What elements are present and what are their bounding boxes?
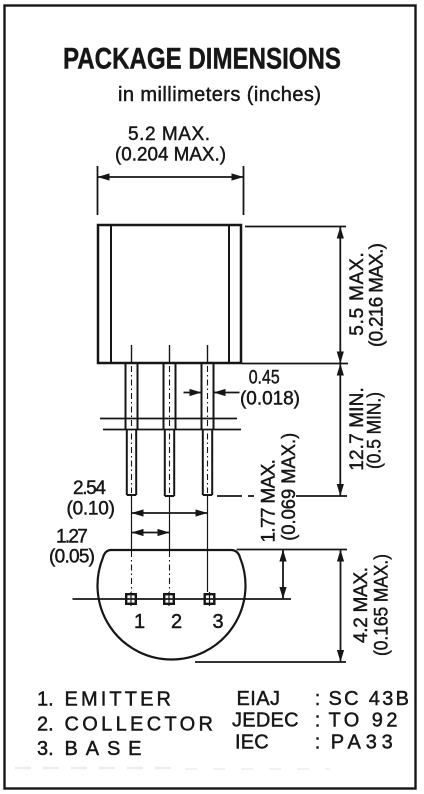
svg-text:EIAJ: EIAJ — [237, 688, 281, 710]
lead 3 narrow section — [203, 430, 212, 495]
svg-text:(0.204 MAX.): (0.204 MAX.) — [115, 145, 226, 166]
dimension line 12.7 MIN vertical — [337, 364, 344, 497]
svg-text:SC 43B: SC 43B — [329, 688, 410, 710]
lead 1 wide section — [126, 364, 138, 430]
bottom view D-shaped outline — [97, 550, 245, 659]
dimension line 1.77 MAX vertical — [279, 550, 286, 600]
svg-text::: : — [315, 732, 321, 754]
dimension line 1.27 with arrows — [132, 529, 170, 536]
hidden lead tick 3 inside body — [207, 345, 209, 362]
svg-text:3: 3 — [212, 611, 223, 633]
lead tip extension line short dash — [248, 495, 254, 497]
extension line right of 5.2 dim — [243, 166, 245, 215]
svg-text:2.54: 2.54 — [73, 478, 106, 499]
hidden lead tick 1 inside body — [131, 345, 133, 362]
svg-text::: : — [315, 710, 321, 732]
svg-text:4.2 MAX.: 4.2 MAX. — [351, 567, 372, 643]
centerline lead 3 — [207, 366, 209, 493]
svg-text:2.: 2. — [37, 714, 54, 736]
break line lower — [103, 429, 241, 431]
body inner line right — [228, 225, 230, 363]
pad 2 square — [164, 594, 174, 604]
svg-text:TO 92: TO 92 — [329, 710, 398, 732]
dimension 0.45 left arrow — [184, 389, 202, 396]
svg-text:(0.10): (0.10) — [67, 499, 115, 520]
svg-text:5.5 MAX.: 5.5 MAX. — [347, 252, 368, 336]
svg-text:1.27: 1.27 — [56, 526, 88, 547]
dimension line 5.2 with arrows — [98, 173, 244, 180]
break line upper — [100, 418, 237, 420]
centerline lead 1 inside bottom view — [131, 551, 133, 592]
lead tip extension line left segment — [217, 495, 242, 497]
hidden lead tick 2 inside body — [169, 345, 171, 362]
pad centerline tick through pad 1 — [130, 592, 132, 606]
svg-text:(0.018): (0.018) — [240, 389, 300, 410]
svg-text:5.2 MAX.: 5.2 MAX. — [128, 124, 210, 145]
svg-text:(0.069 MAX.): (0.069 MAX.) — [279, 433, 300, 541]
body inner line left — [110, 225, 112, 363]
extension line left of 5.2 dim — [97, 166, 99, 215]
centerline extension lead 1 below tip — [131, 495, 133, 550]
dimension 0.45 right arrow — [214, 389, 240, 396]
extension line from body bottom to 5.5 dim — [242, 363, 348, 365]
pad 3 square — [205, 594, 215, 604]
svg-text:IEC: IEC — [235, 732, 269, 754]
centerline extension lead 3 below tip — [207, 495, 209, 550]
pad 1 square — [126, 594, 136, 604]
svg-text:(0.05): (0.05) — [49, 547, 95, 568]
lead 2 wide section — [164, 364, 176, 430]
svg-text:(0.216 MAX.): (0.216 MAX.) — [367, 243, 388, 347]
centerline extension lead 2 below tip — [169, 496, 171, 550]
lead 3 wide section — [202, 364, 214, 430]
dimension line 2.54 with arrows — [132, 509, 208, 516]
centerline lead 2 inside bottom view — [169, 551, 171, 592]
lead 2 narrow section — [165, 430, 174, 496]
lead 1 narrow section — [127, 430, 136, 495]
svg-text::: : — [315, 688, 321, 710]
bottom extension line at D bottom — [195, 661, 346, 663]
extension line from body top to 5.5 dim — [245, 226, 346, 228]
svg-text:2: 2 — [171, 611, 182, 633]
svg-text:(0.165 MAX.): (0.165 MAX.) — [372, 554, 393, 656]
lead tip extension line right segment — [296, 495, 347, 497]
dimension line 4.2 MAX vertical — [337, 550, 344, 663]
svg-text:COLLECTOR: COLLECTOR — [65, 714, 214, 736]
svg-text:PACKAGE DIMENSIONS: PACKAGE DIMENSIONS — [63, 43, 341, 76]
svg-text:(0.5 MIN.): (0.5 MIN.) — [365, 392, 386, 469]
svg-text:3.: 3. — [37, 738, 54, 760]
svg-text:1: 1 — [134, 611, 145, 633]
pad centerline tick through pad 2 — [168, 592, 170, 606]
pad centerline tick through pad 3 — [209, 592, 211, 606]
svg-text:in millimeters (inches): in millimeters (inches) — [118, 84, 321, 106]
svg-text:JEDEC: JEDEC — [232, 710, 299, 732]
centerline lead 1 — [131, 366, 133, 493]
package body outline (front view) — [98, 225, 241, 363]
svg-text:0.45: 0.45 — [249, 368, 280, 389]
faint scan artifact row — [15, 767, 175, 770]
flat top extension line to right dims — [237, 549, 347, 551]
dimension line 5.5 MAX vertical — [337, 227, 344, 364]
centerline lead 3 inside bottom view — [207, 551, 209, 592]
svg-text:1.77 MAX.: 1.77 MAX. — [259, 459, 280, 543]
svg-text:1.: 1. — [37, 689, 54, 711]
pad centerline horizontal through bottom view — [73, 598, 292, 600]
centerline lead 2 — [169, 366, 171, 493]
